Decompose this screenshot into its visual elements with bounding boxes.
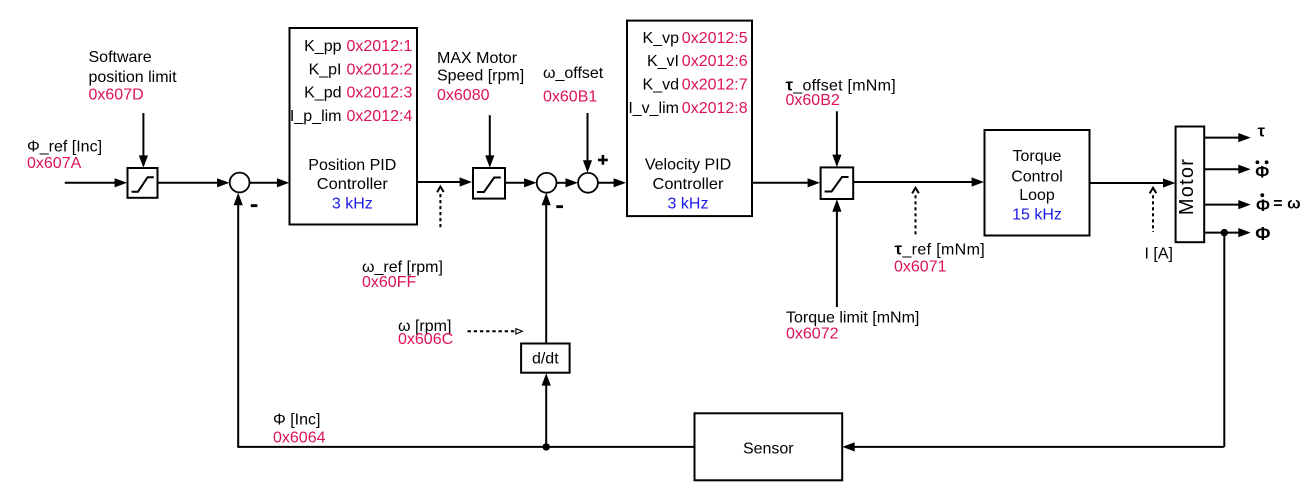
svg-text:Φ: Φ [1256, 196, 1270, 215]
svg-text:K_pd: K_pd [304, 85, 341, 102]
svg-text:Loop: Loop [1019, 187, 1055, 204]
wire Velocity PID to limiter L3 [752, 178, 820, 187]
svg-text:0x2012:3: 0x2012:3 [347, 85, 413, 102]
dashed probe arrow tau_ref [912, 188, 919, 235]
block Motor [1176, 127, 1205, 243]
wire S3 to Velocity PID box [598, 178, 626, 187]
svg-text:0x60B1: 0x60B1 [543, 88, 597, 105]
svg-text:Torque: Torque [1013, 148, 1062, 165]
svg-text:Control: Control [1011, 169, 1063, 186]
svg-text:0x6080: 0x6080 [437, 87, 490, 104]
svg-text:Φ_ref [Inc]: Φ_ref [Inc] [27, 139, 102, 156]
svg-text:I [A]: I [A] [1145, 246, 1173, 263]
svg-text:Torque limit [mNm]: Torque limit [mNm] [786, 310, 919, 327]
wire feedback right vertical [1223, 233, 1225, 447]
svg-text:0x2012:2: 0x2012:2 [347, 61, 413, 78]
limiter L1 (software position limit saturation block) [128, 168, 158, 198]
label Phi [Inc] / 0x6064 [273, 412, 326, 447]
summing junction S1 [230, 173, 250, 193]
label omega [rpm] / 0x606C [398, 318, 453, 348]
minus sign at S1 [251, 204, 258, 207]
wire feedback into Sensor [842, 442, 1224, 451]
block Position PID Controller [290, 28, 418, 225]
svg-text:0x2012:6: 0x2012:6 [682, 53, 748, 70]
svg-text:K_vd: K_vd [643, 76, 679, 93]
svg-text:K_vI: K_vI [647, 53, 679, 70]
svg-text:0x2012:7: 0x2012:7 [682, 76, 748, 93]
svg-text:Φ: Φ [1255, 223, 1270, 244]
svg-text:0x60B2: 0x60B2 [786, 92, 840, 109]
node junction on phi output [1221, 229, 1228, 236]
block Torque Control Loop [985, 130, 1090, 236]
svg-text:K_pp: K_pp [304, 38, 341, 55]
label Software position limit / 0x607D [89, 49, 178, 103]
summing junction S2 [537, 173, 557, 193]
wire motor output phi-dot [1204, 200, 1251, 209]
label phi-ddot output [1255, 160, 1269, 181]
dashed probe arrow omega [rpm] [468, 329, 523, 334]
label tau_offset [mNm] / 0x60B2 [786, 75, 896, 109]
wire motor output phi [1204, 228, 1251, 237]
wire Position PID to limiter L2 [417, 177, 472, 186]
svg-text:Controller: Controller [317, 176, 389, 193]
svg-text:Position PID: Position PID [308, 157, 396, 174]
svg-text:K_pI: K_pI [309, 61, 342, 78]
wire arrow down into limiter L2 [485, 115, 494, 168]
wire S2 to summing junction S3 [557, 178, 578, 187]
wire input arrow into limiter L1 [65, 178, 127, 187]
svg-text:0x607D: 0x607D [89, 87, 144, 104]
svg-text:τ_ref [mNm]: τ_ref [mNm] [895, 240, 986, 259]
plus sign at S3 [598, 155, 608, 165]
wire L3 to Torque Control Loop [853, 177, 984, 186]
svg-text:I_v_lim: I_v_lim [628, 100, 679, 117]
svg-text:I_p_lim: I_p_lim [290, 108, 342, 125]
svg-text:3 kHz: 3 kHz [668, 196, 709, 213]
svg-text:0x2012:4: 0x2012:4 [347, 108, 413, 125]
svg-text:0x6064: 0x6064 [273, 429, 326, 446]
label omega_offset / 0x60B1 [543, 65, 604, 105]
svg-text:0x2012:5: 0x2012:5 [682, 30, 748, 47]
svg-text:Φ [Inc]: Φ [Inc] [273, 412, 320, 429]
wire arrow down into limiter L1 [139, 113, 148, 168]
wire feedback Sensor to S1 [234, 193, 695, 447]
svg-text:0x2012:8: 0x2012:8 [682, 100, 748, 117]
wire arrow down into S3 (omega_offset) [583, 113, 592, 173]
wire L1 to summing junction S1 [158, 178, 230, 187]
label phi-dot = omega output [1256, 193, 1301, 215]
svg-text:15 kHz: 15 kHz [1012, 206, 1062, 223]
svg-text:MAX Motor: MAX Motor [437, 50, 518, 67]
summing junction S3 [578, 173, 598, 193]
minus sign at S2 [556, 205, 563, 208]
label tau_ref [mNm] / 0x6071 [894, 240, 985, 276]
svg-text:d/dt: d/dt [532, 350, 559, 367]
wire arrow down into limiter L3 [832, 111, 841, 167]
block Velocity PID Controller [627, 21, 752, 217]
svg-text:Motor: Motor [1176, 158, 1198, 215]
svg-text:τ: τ [1258, 123, 1266, 141]
wire arrow up into L3 bottom (torque limit) [832, 199, 841, 307]
svg-text:ω_offset: ω_offset [543, 65, 604, 82]
dashed probe arrow omega_ref [437, 187, 444, 230]
svg-text:K_vp: K_vp [643, 30, 680, 47]
svg-text:Φ: Φ [1255, 162, 1269, 181]
wire motor output phi-ddot [1204, 165, 1251, 174]
svg-text:Speed [rpm]: Speed [rpm] [437, 68, 524, 85]
svg-text:0x6071: 0x6071 [894, 258, 947, 275]
block d/dt [521, 344, 570, 373]
svg-text:0x607A: 0x607A [27, 155, 82, 172]
node junction at d/dt branch [543, 443, 550, 450]
svg-text:Software: Software [89, 49, 152, 66]
wire Torque Control Loop to Motor [1090, 178, 1176, 187]
label Torque limit [mNm] / 0x6072 [786, 310, 919, 343]
svg-text:= ω: = ω [1273, 196, 1300, 213]
block Sensor [695, 413, 843, 480]
label Phi_ref [Inc] / 0x607A [27, 139, 102, 173]
dashed probe arrow I [A] [1150, 188, 1157, 232]
svg-text:Sensor: Sensor [743, 440, 794, 457]
wire d/dt to S2 [542, 193, 551, 344]
wire arrow up into d/dt [542, 373, 551, 447]
wire S1 to Position PID box [250, 178, 290, 187]
label MAX Motor Speed [rpm] / 0x6080 [437, 50, 524, 104]
wire L2 to summing junction S2 [505, 178, 537, 187]
svg-text:3 kHz: 3 kHz [332, 196, 373, 213]
svg-text:0x2012:1: 0x2012:1 [347, 38, 413, 55]
wire motor output tau [1204, 133, 1251, 142]
label omega_ref [rpm] / 0x60FF [362, 259, 443, 291]
svg-text:Velocity PID: Velocity PID [645, 156, 731, 173]
svg-text:Controller: Controller [653, 176, 725, 193]
limiter L2 (max motor speed saturation block) [473, 168, 505, 199]
limiter L3 (torque limit saturation block) [821, 167, 854, 199]
svg-text:0x6072: 0x6072 [786, 326, 839, 343]
svg-text:0x60FF: 0x60FF [362, 274, 416, 291]
svg-text:0x606C: 0x606C [398, 331, 453, 348]
svg-text:position limit: position limit [89, 69, 178, 86]
